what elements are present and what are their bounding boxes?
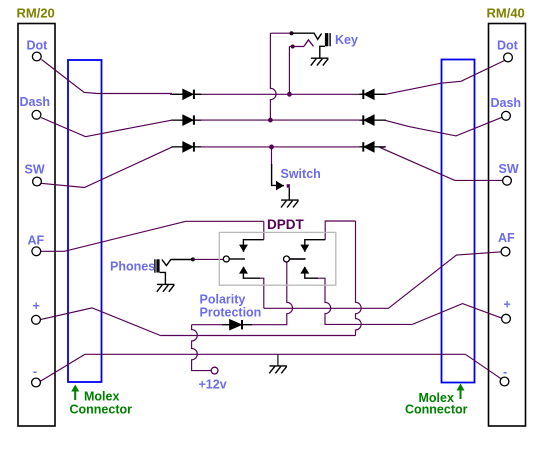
DPDT left pole top throw arrow [240,240,263,252]
ground for switch [281,200,299,207]
svg-text:Key: Key [335,33,358,47]
wire line D (ground bus, minus net) [85,353,465,355]
wire Dot-left pin to dot row [42,60,173,94]
wire key tip vertical (hops dot row, joins dash row) [270,33,276,120]
connector body RM/20 (left black rectangle) [18,24,55,427]
wire dash row to Dash-right pin [385,117,502,136]
svg-text:AF: AF [498,231,515,245]
svg-text:Protection: Protection [200,306,262,320]
DPDT switch box [219,232,335,285]
Molex connector right (blue rectangle) [442,60,475,383]
svg-text:DPDT: DPDT [267,217,305,232]
pin Dot right [504,53,513,62]
svg-text:RM/40: RM/40 [487,6,525,21]
svg-text:+: + [504,298,511,312]
DPDT right pole bottom throw arrow [302,267,318,278]
svg-text:SW: SW [499,162,519,176]
wire phones tip to DPDT left pole common [193,258,223,260]
svg-text:-: - [503,365,507,379]
junction dot dash row / key tip [268,118,273,123]
diode D7 polarity protection (pointing right) [222,320,252,330]
Molex connector left (blue rectangle) [68,60,102,382]
wire sw row to SW-right pin [380,147,503,180]
jack J1 key ring contact (purple) [304,40,314,47]
wire ground stub on line D [277,354,279,366]
diode D2 (dash row, left) [172,115,201,125]
diode D5 (dash row, right, pointing left) [359,115,385,125]
pin dot key ring [291,45,295,49]
wire diode line down to +12v (hops line C and line D) [192,325,211,371]
svg-text:Molex: Molex [84,390,119,404]
pin Dot left [32,52,41,61]
pin + left [32,315,41,324]
label Molex Connector right [405,384,468,417]
wire line A to AF-right pin [264,252,502,308]
wire line C (+12v bus) [160,335,355,337]
ground for key jack [311,58,329,65]
diode D6 (sw row, right, pointing left) [359,142,385,152]
DPDT left pole common contact line [229,258,245,260]
wire DPDT right pole top throw feed [325,221,355,240]
wire SW-left pin to sw row [41,147,173,188]
pin + right [502,314,511,323]
wire dash row (net Dash) [171,119,386,121]
jack J1 Key [292,33,330,58]
wire DPDT right pole common down to polarity diode line (hops line A) [252,262,293,325]
wire DPDT right pole common contact [289,258,305,260]
svg-text:Connector: Connector [405,403,468,417]
pin - left [32,378,41,387]
ground for phones jack [157,284,175,291]
svg-text:Dot: Dot [27,39,49,53]
pin AF right [501,247,510,256]
diode D3 (sw row, left) [172,142,201,152]
wire DPDT right pole bottom throw to line B [318,278,412,324]
junction dot sw row / switch [269,145,274,150]
pin Dash right [502,111,511,120]
svg-text:RM/20: RM/20 [17,6,55,21]
DPDT left pole bottom throw arrow [240,267,260,278]
pin dot phones tip [191,257,195,261]
svg-text:Dash: Dash [491,96,522,110]
svg-text:AF: AF [28,234,45,248]
diode D1 (dot row, left) [172,90,201,100]
wire line D to minus-right pin [465,354,501,378]
svg-text:+12v: +12v [199,378,227,392]
DPDT right pole top throw arrow [302,240,326,252]
svg-text:Dot: Dot [497,39,519,53]
label Molex Connector left [70,385,133,417]
+12v terminal circle [211,367,218,374]
wire polarity diode line left part [192,324,222,326]
pin Dash left [32,110,41,119]
DPDT right pole pivot circle [284,256,290,262]
svg-text:Connector: Connector [70,403,133,417]
pin AF left [32,247,41,256]
pin dot key tip [290,31,294,35]
svg-text:Phones: Phones [110,260,155,274]
svg-text:SW: SW [25,163,45,177]
diode D4 (dot row, right, pointing left) [359,90,385,100]
ground on line D [269,366,287,373]
svg-text:Polarity: Polarity [200,293,246,307]
pin SW left [33,177,42,186]
switch S1 to ground [272,164,290,200]
wire line B to +right pin [412,304,502,325]
wire dot row to Dot-right pin [385,61,505,95]
wire AF-left pin to DPDT top [41,221,264,251]
wire key tip top horizontal [270,32,291,34]
wire Dash-left pin to dash row [41,118,173,137]
wire +left pin to line C [40,308,160,336]
svg-text:Switch: Switch [281,167,321,181]
DPDT left pole pivot circle [223,256,229,262]
jack J2 Phones [155,259,192,284]
wire dot row (net Dot) [170,93,386,95]
DPDT right pole common contact line [289,258,305,260]
svg-text:-: - [33,365,37,379]
wire sw row to switch [271,147,273,166]
wire key ring to dot row [289,47,304,95]
pin SW right [503,176,512,185]
connector body RM/40 (right black rectangle) [489,24,526,427]
wire DPDT left pole top throw feed [263,221,265,239]
switch S1 fixed contact (purple square) [287,184,290,188]
wire DPDT left pole bottom throw to line A [260,278,264,308]
wire sw row (net SW) [171,146,386,148]
svg-text:+: + [33,299,40,313]
wire right top throw drop to line C (hops line A and line B) [356,221,362,336]
pin - right [500,377,509,386]
junction dot dot row / key ring [287,92,292,97]
svg-text:Dash: Dash [20,95,51,109]
wire minus-left pin to line D [40,354,85,381]
